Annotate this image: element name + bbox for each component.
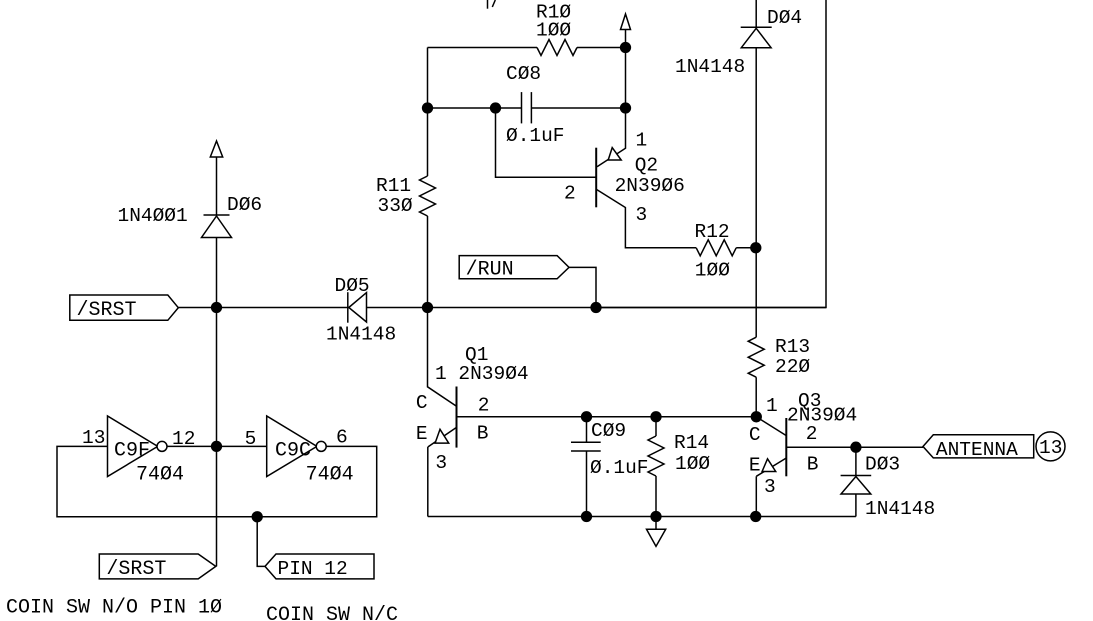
transistor Q2 bar [595, 148, 597, 208]
wire Q3 emitter down to bottom run [755, 476, 757, 516]
wire main run D05 to right corner [367, 307, 827, 309]
wire R10 right lead [577, 47, 626, 49]
svg-text:DØ5: DØ5 [335, 275, 370, 297]
wire /SRST to D05 [178, 307, 347, 309]
wire Q1 base run to Q3 collector [457, 416, 757, 418]
svg-text:6: 6 [336, 426, 348, 448]
svg-text:/RUN: /RUN [466, 259, 514, 282]
inverter C9F [108, 416, 158, 477]
diode D03 [841, 475, 872, 477]
flag PIN 12 [265, 554, 374, 579]
wire Q3 base to antenna flag [786, 446, 923, 448]
node C09 bottom junction [582, 512, 592, 522]
svg-text:2: 2 [564, 183, 576, 205]
node C9F output junction [212, 442, 222, 452]
svg-text:C: C [749, 424, 761, 446]
node D03 junction [851, 442, 861, 452]
wire R13 bottom lead [755, 377, 757, 417]
svg-text:C9C: C9C [275, 440, 311, 463]
wire R14 top lead [655, 417, 657, 436]
wire Q3 collector diagonal [756, 417, 786, 436]
wire PIN 12 drop [257, 517, 265, 567]
node loop bottom junction [252, 512, 262, 522]
svg-text:B: B [807, 454, 819, 476]
wire D06 down to /SRST node [216, 238, 218, 308]
svg-text:PIN 12: PIN 12 [278, 558, 348, 580]
svg-text:2N39Ø6: 2N39Ø6 [615, 175, 685, 197]
svg-text:R13: R13 [775, 336, 810, 358]
svg-text:DØ6: DØ6 [227, 194, 262, 216]
node R14 top junction [651, 412, 661, 422]
transistor Q3 emitter arrow [762, 459, 776, 472]
wire power arrow to R10 node [625, 30, 627, 48]
wire R12 right lead [736, 247, 756, 249]
wire Q1 emitter down to bottom run [427, 447, 429, 517]
wire power arrow to D06 [216, 157, 218, 215]
node Q3 emitter bottom junction [751, 512, 761, 522]
transistor Q2 emitter arrow [608, 148, 621, 160]
wire R11 bottom to main run [427, 216, 429, 308]
wire D03 bottom riser [855, 494, 857, 517]
svg-text:1N4148: 1N4148 [865, 498, 935, 520]
svg-text:E: E [749, 455, 761, 477]
wire D04 down through R12 node to R13 [755, 48, 757, 338]
svg-text:2: 2 [478, 394, 490, 416]
wire C9F output to center vertical [167, 445, 217, 447]
wire C09 bottom lead [586, 451, 588, 517]
wire D04 top stub [755, 0, 757, 27]
wire Q2 emitter lead pin 1 [597, 108, 626, 167]
node C08 left junction [423, 103, 433, 113]
node main run / RUN junction [591, 303, 601, 313]
pin circle 13 [1036, 432, 1065, 461]
node Q2 base junction on C08 wire [491, 103, 501, 113]
svg-text:DØ3: DØ3 [865, 454, 900, 476]
flag /RUN [459, 256, 569, 279]
svg-text:74Ø4: 74Ø4 [136, 463, 184, 486]
svg-text:R11: R11 [376, 175, 411, 197]
diode D05 [347, 292, 349, 323]
svg-text:3: 3 [435, 452, 447, 474]
svg-text:R14: R14 [674, 432, 709, 454]
wire Q3 emitter diagonal [756, 458, 786, 476]
wire center vertical to bottom SRST flag [216, 308, 218, 567]
svg-text:2: 2 [806, 423, 818, 445]
node Q3 collector junction [751, 412, 761, 422]
wire C09 top lead [586, 417, 588, 443]
capacitor C08 [521, 92, 523, 123]
flag /SRST bottom [99, 554, 216, 579]
svg-text:CØ8: CØ8 [506, 63, 541, 85]
svg-text:1: 1 [636, 129, 648, 151]
svg-text:COIN SW N/C: COIN SW N/C [266, 604, 398, 621]
node R10/power junction [621, 43, 631, 53]
wire left vertical x=427.5 from R10 down to R11 [427, 48, 429, 177]
svg-text:22Ø: 22Ø [775, 356, 810, 378]
svg-text:3: 3 [764, 476, 776, 498]
node R12/D04 junction [751, 243, 761, 253]
resistor R13 [748, 337, 764, 377]
flag ANTENNA [923, 435, 1034, 458]
wire ground stem [655, 517, 657, 530]
svg-text:1N4ØØ1: 1N4ØØ1 [118, 205, 188, 227]
svg-text:C: C [416, 392, 428, 414]
wire Q2 base pin 2 to C08 node [496, 108, 597, 177]
resistor R10 [537, 40, 577, 56]
capacitor C09 [571, 441, 601, 443]
resistor R14 [648, 436, 664, 476]
resistor R11 [420, 176, 436, 216]
wire Q1 emitter diagonal [428, 427, 457, 447]
svg-text:1 2N39Ø4: 1 2N39Ø4 [435, 363, 529, 385]
wire C9F input loop [57, 446, 377, 516]
svg-text:5: 5 [245, 428, 257, 450]
svg-text:1N4148: 1N4148 [326, 324, 396, 346]
diode D04 [741, 26, 772, 28]
svg-text:1ØØ: 1ØØ [695, 259, 730, 281]
resistor R12 [696, 240, 736, 256]
wire /RUN to main run [569, 267, 596, 307]
svg-text:ANTENNA: ANTENNA [936, 439, 1018, 461]
svg-text:/SRST: /SRST [77, 299, 137, 322]
wire C08 left lead [428, 107, 522, 109]
wire bottom run [428, 516, 856, 518]
wire right vertical from top to main run [596, 0, 826, 308]
svg-text:1N4148: 1N4148 [675, 56, 745, 78]
svg-text:/SRST: /SRST [106, 558, 166, 581]
svg-text:Ø.1uF: Ø.1uF [590, 457, 649, 479]
svg-text:R12: R12 [695, 221, 730, 243]
node R14 bottom junction [651, 512, 661, 522]
wire Q1 collector from main run [428, 308, 457, 407]
node main run / left vertical junction [423, 303, 433, 313]
node SRST junction [212, 303, 222, 313]
wire C9C input [217, 445, 267, 447]
svg-text:Q2: Q2 [635, 155, 658, 177]
wire top R10 left lead [428, 47, 538, 49]
svg-text:74Ø4: 74Ø4 [306, 463, 354, 486]
transistor Q1 bar [456, 387, 458, 448]
power arrow above R10 right [621, 14, 631, 30]
svg-text:1: 1 [766, 395, 778, 417]
partial text 17 cut at top [487, 0, 489, 9]
power arrow above D06 [210, 141, 222, 157]
svg-text:2N39Ø4: 2N39Ø4 [787, 404, 857, 426]
node C09 top junction [582, 412, 592, 422]
svg-text:13: 13 [1039, 437, 1062, 459]
node C08 right junction [621, 103, 631, 113]
transistor Q1 emitter arrow [435, 429, 449, 443]
svg-text:33Ø: 33Ø [378, 195, 413, 217]
svg-text:CØ9: CØ9 [591, 420, 626, 442]
inverter C9C [267, 416, 317, 477]
flag /SRST left [70, 295, 179, 320]
svg-text:B: B [477, 422, 489, 444]
svg-text:DØ4: DØ4 [767, 7, 802, 29]
svg-text:1ØØ: 1ØØ [675, 453, 710, 475]
svg-text:E: E [416, 423, 428, 445]
wire from R10 node down to C08 right node [625, 48, 627, 109]
svg-text:COIN SW N/O PIN 1Ø: COIN SW N/O PIN 1Ø [6, 597, 222, 620]
wire Q2 collector pin 3 down to R12 [596, 189, 696, 248]
wire D03 top to base wire [855, 447, 857, 475]
ground [647, 529, 666, 546]
transistor Q3 bar [785, 418, 787, 476]
wire C08 right lead [531, 107, 625, 109]
svg-text:1ØØ: 1ØØ [536, 19, 571, 41]
svg-text:Ø.1uF: Ø.1uF [506, 125, 565, 147]
svg-text:C9F: C9F [114, 440, 150, 463]
wire R14 bottom lead [655, 476, 657, 517]
svg-text:3: 3 [636, 204, 648, 226]
diode D06 [204, 214, 230, 216]
